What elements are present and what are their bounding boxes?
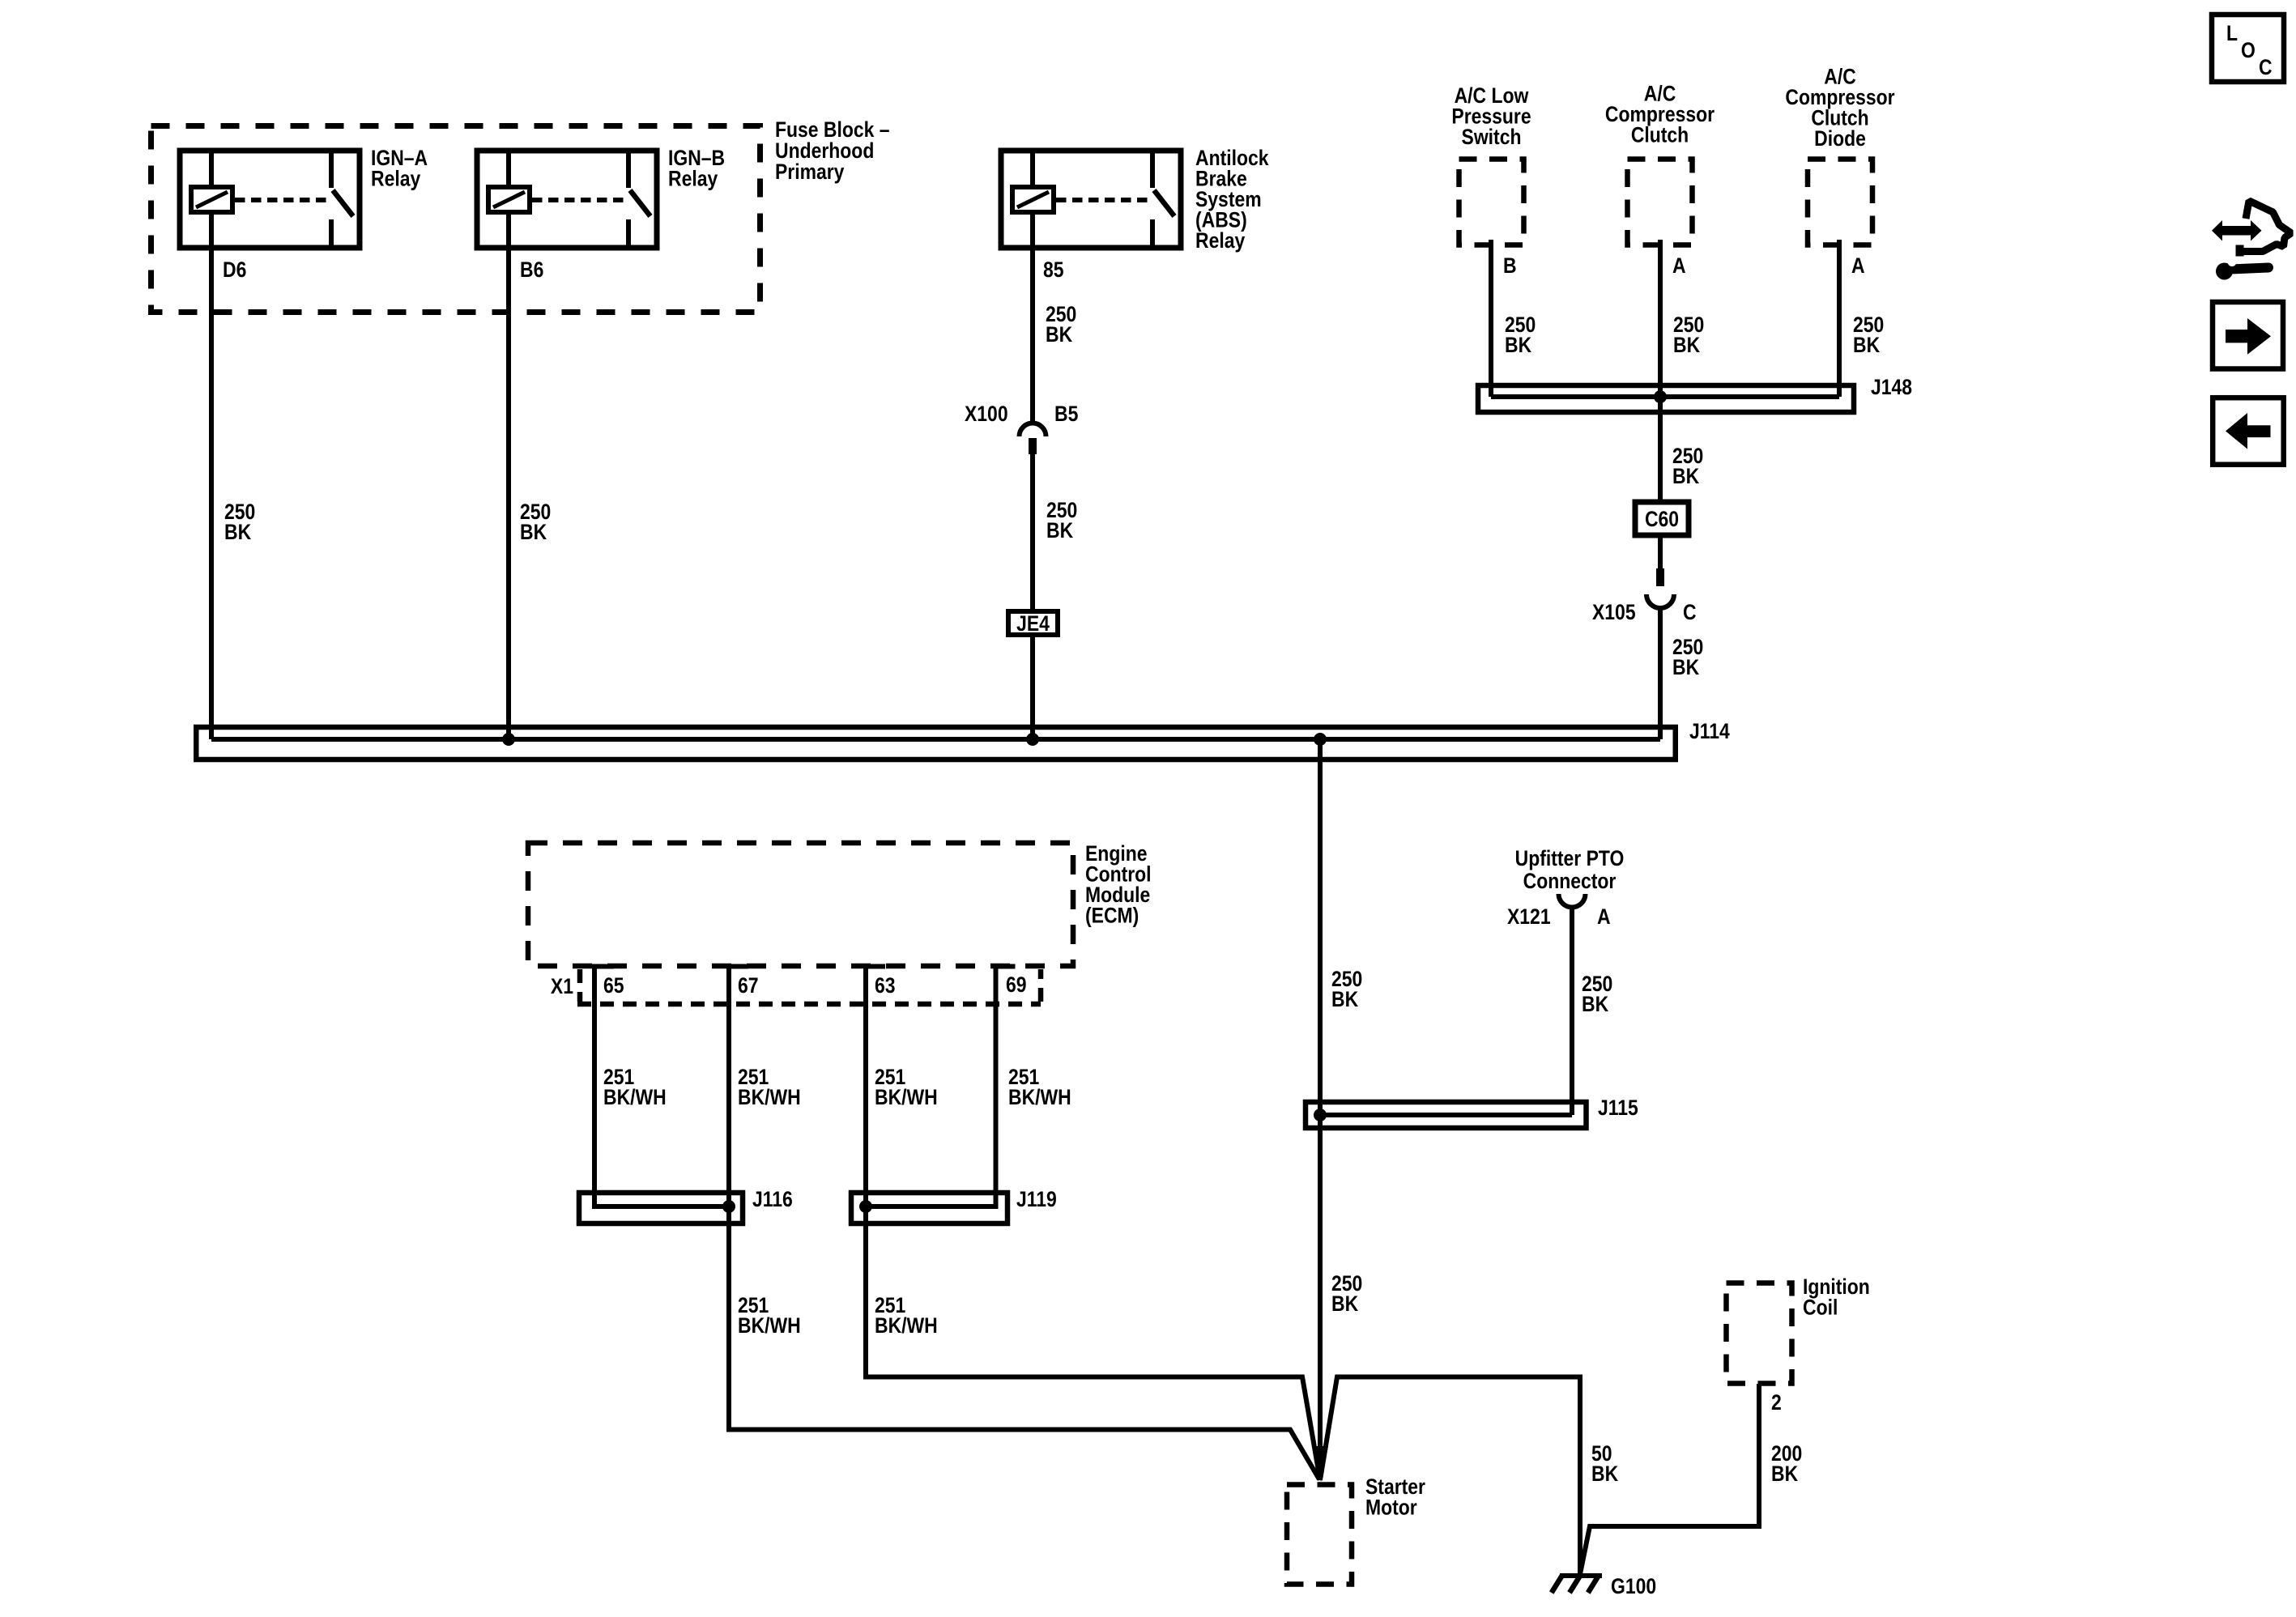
wire D6 label 250 BK (224, 500, 255, 544)
svg-text:63: 63 (875, 973, 896, 998)
junction dot on J148 (1654, 390, 1667, 403)
wire label 250 BK (clutch) (1673, 313, 1704, 357)
pin 67 bracket (726, 964, 748, 969)
wire label 250 BK (X121) (1582, 972, 1612, 1016)
LOC legend box icon (2212, 15, 2284, 82)
svg-text:O: O (2241, 38, 2256, 62)
wire label 250 BK (above X100) (1046, 302, 1076, 347)
relay IGN-A K1 label (371, 146, 428, 191)
wire label 250 BK (switch) (1505, 313, 1536, 357)
back arrow icon (2213, 398, 2284, 465)
svg-text:BK: BK (1582, 992, 1608, 1016)
svg-text:BK: BK (1331, 987, 1358, 1011)
wire ABS relay pin 85 to X100 (1030, 212, 1035, 423)
svg-text:65: 65 (603, 973, 624, 998)
svg-text:A: A (1672, 253, 1686, 278)
svg-text:J119: J119 (1016, 1187, 1057, 1211)
ignition coil dashed box (1727, 1283, 1792, 1384)
relay ABS K3 (1001, 151, 1181, 248)
wire label 250 BK (starter) (1331, 1271, 1362, 1316)
svg-text:X1: X1 (551, 974, 573, 998)
wire switch pin B to J148 250 BK (1489, 240, 1493, 397)
wire X100 to JE4 (1030, 454, 1035, 610)
junction dot J115 (1314, 1108, 1327, 1121)
splice J119 (851, 1193, 1007, 1223)
svg-text:X105: X105 (1592, 600, 1636, 624)
svg-text:67: 67 (738, 973, 759, 998)
svg-text:Coil: Coil (1803, 1296, 1838, 1320)
wire B6 label 250 BK (520, 500, 551, 544)
svg-text:BK: BK (1672, 464, 1699, 488)
svg-text:X121: X121 (1507, 904, 1551, 929)
wire J114 to J115 250 BK (1318, 739, 1323, 1115)
ECM X1 connector strip (577, 969, 1041, 1004)
svg-text:Relay: Relay (1195, 228, 1245, 253)
wire labels 251 BK/WH (upper row) (603, 1065, 1071, 1109)
svg-text:BK: BK (224, 520, 251, 544)
connector X121 pin A (1559, 894, 1586, 908)
svg-text:X100: X100 (965, 402, 1008, 426)
svg-text:J114: J114 (1689, 719, 1730, 743)
wire pin 63 down 251 BK/WH (866, 967, 1320, 1481)
junction dot J114 B6 (502, 733, 515, 746)
starter motor dashed box (1287, 1485, 1352, 1585)
wire B6 250 BK (506, 212, 511, 739)
wire pin 69 to J119 251 BK/WH (868, 967, 996, 1207)
svg-text:A: A (1851, 253, 1865, 278)
svg-text:D6: D6 (223, 257, 246, 282)
wire ignition coil to G100 200 BK (1580, 1384, 1759, 1574)
A/C compressor clutch label (1605, 82, 1715, 147)
splice J148 (1478, 385, 1854, 412)
starter motor label (1365, 1474, 1425, 1520)
wire pin 67 down 251 BK/WH (729, 967, 1319, 1480)
ECM dashed box (528, 843, 1073, 966)
svg-text:BK/WH: BK/WH (603, 1085, 667, 1109)
svg-text:Upfitter PTO: Upfitter PTO (1515, 846, 1625, 870)
splice J114 (196, 727, 1676, 760)
svg-text:(ECM): (ECM) (1085, 904, 1139, 928)
fuse block underhood primary dashed box (151, 126, 760, 313)
A/C low pressure switch dashed box (1459, 160, 1524, 245)
wire label 250 BK (diode) (1853, 313, 1884, 357)
splice J115 (1306, 1102, 1587, 1128)
wire X105 to J114 250 BK (1658, 607, 1663, 739)
wire D6 250 BK (209, 212, 214, 739)
svg-text:BK: BK (1853, 333, 1880, 357)
svg-text:J148: J148 (1871, 375, 1912, 399)
svg-text:85: 85 (1043, 257, 1064, 282)
wire J115 to starter motor 250 BK (1318, 1115, 1323, 1480)
svg-text:Relay: Relay (371, 167, 420, 191)
relay IGN-B K2 (477, 151, 657, 248)
A/C compressor clutch diode dashed box (1808, 160, 1872, 245)
wire X121 to J115 250 BK (1570, 906, 1574, 1115)
wire label 200 BK (1771, 1441, 1802, 1486)
wire starter to G100 50 BK (1320, 1377, 1580, 1575)
svg-text:BK/WH: BK/WH (738, 1313, 801, 1338)
relay IGN-B K2 label (668, 146, 725, 191)
wire label 250 BK (below J148) (1672, 444, 1703, 488)
wire JE4 to splice J114 (1030, 635, 1035, 739)
svg-text:BK/WH: BK/WH (875, 1085, 938, 1109)
svg-text:BK: BK (520, 520, 547, 544)
svg-text:BK: BK (1591, 1462, 1618, 1486)
svg-text:Connector: Connector (1523, 869, 1617, 893)
junction dot J116 (722, 1200, 735, 1213)
svg-text:BK/WH: BK/WH (1008, 1085, 1071, 1109)
wire label 50 BK (1591, 1441, 1618, 1486)
wire label 250 BK (J114-J115) (1331, 967, 1362, 1011)
wire merge wedge at starter (1312, 1446, 1328, 1482)
splice J116 (579, 1193, 743, 1223)
svg-text:Relay: Relay (668, 167, 718, 191)
svg-text:BK/WH: BK/WH (875, 1313, 938, 1338)
forward arrow icon (2213, 302, 2283, 369)
svg-text:BK: BK (1505, 333, 1531, 357)
svg-text:BK: BK (1672, 655, 1699, 679)
diagnostic hand-wrench icon (2212, 201, 2291, 280)
pin 69 bracket (994, 964, 1016, 969)
svg-text:C60: C60 (1645, 507, 1679, 531)
svg-text:B6: B6 (520, 257, 543, 282)
svg-text:C: C (2259, 55, 2273, 79)
svg-text:BK: BK (1046, 322, 1072, 347)
wire labels 251 BK/WH (lower row) (738, 1293, 938, 1338)
wire diode pin A to J148 250 BK (1837, 240, 1842, 397)
svg-text:BK: BK (1331, 1291, 1358, 1316)
wire label 250 BK (below X100) (1046, 498, 1077, 543)
svg-text:A: A (1597, 904, 1611, 929)
junction dot J119 (859, 1200, 872, 1213)
relay IGN-A K1 (180, 151, 360, 248)
svg-text:Clutch: Clutch (1631, 123, 1689, 147)
junction dot J114 ABS (1026, 733, 1039, 746)
svg-text:JE4: JE4 (1016, 611, 1050, 636)
A/C low pressure switch label (1451, 83, 1531, 149)
svg-text:J116: J116 (752, 1187, 793, 1211)
connector C60 box (1635, 502, 1689, 535)
svg-text:B: B (1503, 253, 1517, 278)
ECM label (1085, 841, 1152, 928)
junction dot J114 output (1314, 733, 1327, 746)
pin 65 bracket (592, 964, 614, 969)
svg-text:Switch: Switch (1462, 125, 1522, 149)
ignition coil label (1803, 1274, 1870, 1320)
svg-text:C: C (1683, 600, 1697, 624)
svg-text:Diode: Diode (1814, 126, 1866, 151)
wire clutch pin A to C60 250 BK (1658, 240, 1663, 501)
A/C compressor clutch diode label (1785, 65, 1894, 151)
wire label 250 BK (X105) (1672, 635, 1703, 679)
svg-text:2: 2 (1771, 1390, 1782, 1415)
svg-text:69: 69 (1006, 972, 1027, 997)
svg-text:BK: BK (1771, 1462, 1798, 1486)
connector JE4 box (1008, 611, 1058, 636)
svg-text:B5: B5 (1054, 402, 1078, 426)
relay ABS K3 label (1195, 146, 1269, 253)
svg-text:BK/WH: BK/WH (738, 1085, 801, 1109)
svg-text:G100: G100 (1611, 1574, 1656, 1598)
ground G100 symbol (1552, 1575, 1602, 1593)
svg-text:Primary: Primary (775, 160, 845, 184)
wire C60 to X105 (1658, 535, 1663, 569)
connector X100 pin B5 (1020, 423, 1046, 455)
wire pin 65 to J116 251 BK/WH (594, 967, 726, 1207)
connector X105 pin C (1646, 568, 1674, 608)
pin 63 bracket (863, 964, 885, 969)
upfitter PTO connector label (1515, 846, 1625, 893)
A/C compressor clutch dashed box (1628, 160, 1693, 245)
svg-text:Motor: Motor (1365, 1496, 1417, 1520)
svg-text:BK: BK (1673, 333, 1700, 357)
svg-text:BK: BK (1046, 518, 1073, 543)
fuse block label (775, 117, 890, 184)
svg-text:J115: J115 (1598, 1096, 1638, 1120)
svg-text:L: L (2226, 21, 2238, 45)
